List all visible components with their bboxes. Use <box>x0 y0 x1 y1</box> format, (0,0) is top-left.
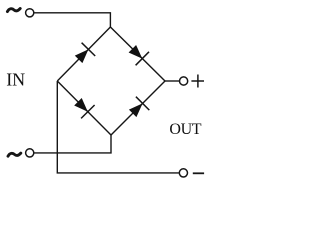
AC source symbol ~ (top input) <box>7 9 20 12</box>
svg-text:IN: IN <box>6 70 25 90</box>
diode D2 (upper-right, top node to plus node) <box>129 45 149 65</box>
wire bridge edge upper-left <box>57 27 110 81</box>
wire bridge edge upper-right <box>110 27 165 81</box>
diode D3 (lower-left, minus node to bottom node) <box>74 98 94 118</box>
minus sign label <box>193 172 204 174</box>
diode D1 (upper-left, minus node to top node) <box>75 43 95 63</box>
terminal + output (open circle) <box>180 77 188 85</box>
wire plus node to + terminal <box>165 80 179 82</box>
wire bottom node down and left to AC2 terminal <box>34 135 111 153</box>
diode D4 (lower-right, bottom node to plus node) <box>129 97 149 117</box>
terminal - output (open circle) <box>179 169 187 177</box>
wire minus node down the left side and along bottom to - terminal <box>57 81 179 173</box>
terminal AC1 (top-left open circle) <box>26 9 34 17</box>
wire bridge edge lower-left <box>57 81 111 135</box>
plus sign label <box>191 75 204 88</box>
AC source symbol ~ (bottom input) <box>8 153 21 156</box>
wire bridge edge lower-right <box>111 81 165 135</box>
wire AC1 to top node <box>34 13 111 27</box>
svg-text:OUT: OUT <box>169 121 201 138</box>
terminal AC2 (bottom-left open circle) <box>26 149 34 157</box>
